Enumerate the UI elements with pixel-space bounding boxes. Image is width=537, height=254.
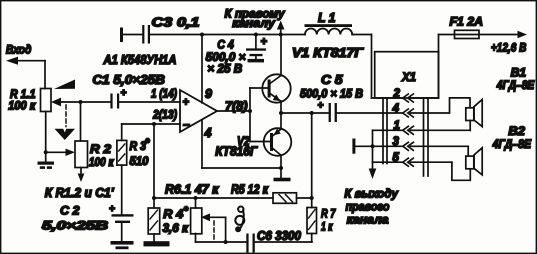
wire junction to R2 wiper arrow [46, 151, 67, 153]
svg-text:С1 5,0×25В: С1 5,0×25В [92, 73, 164, 87]
svg-text:каналу: каналу [232, 16, 276, 30]
svg-text:100 к: 100 к [8, 99, 36, 113]
op-amp output wire [217, 110, 250, 112]
inductor L1 [305, 11, 353, 35]
node R5/R7 [310, 196, 314, 200]
connector X1 row 1 [373, 120, 471, 134]
connector X1 row 2 [372, 88, 439, 102]
mechanical link dashed line [65, 105, 67, 127]
svg-text:+12,6 В: +12,6 В [491, 41, 527, 55]
node output [248, 109, 252, 113]
resistor R4* 3,6k [148, 205, 189, 235]
wire L1 to connector [352, 34, 371, 36]
svg-text:7(8): 7(8) [225, 99, 248, 113]
ground under R4 [153, 234, 155, 241]
R1.1 wiper arrow [51, 98, 61, 107]
wire V1 collector to rail [280, 35, 282, 76]
svg-text:5: 5 [393, 152, 400, 164]
inverting input wire [122, 123, 180, 125]
wire row2 to fuse [438, 52, 440, 98]
wire output to bases [250, 88, 271, 142]
capacitor C3 0,1 [123, 16, 200, 44]
svg-text:9: 9 [205, 87, 212, 101]
svg-text:R 4: R 4 [163, 207, 183, 221]
svg-text:–: – [183, 117, 190, 131]
svg-text:500,0 × 15 В: 500,0 × 15 В [300, 86, 363, 100]
wire junction vertical [372, 130, 374, 169]
svg-text:Вход: Вход [6, 42, 32, 56]
svg-text:V1 КТ817Г: V1 КТ817Г [292, 46, 364, 60]
svg-text:+: + [109, 204, 115, 215]
wire inv input down to R3 [121, 124, 123, 140]
svg-text:3,6 к: 3,6 к [163, 221, 189, 235]
svg-text:правого: правого [346, 199, 390, 213]
svg-text:× 25 В: × 25 В [207, 61, 242, 75]
svg-text:1: 1 [394, 120, 400, 132]
treble clef symbol [235, 207, 244, 233]
ground under C2 [111, 241, 134, 249]
wire R3 to C2 [121, 165, 123, 214]
node wiper/R2 junction [79, 100, 83, 104]
connector right bundle lines [424, 98, 429, 176]
wire V2 collector down [280, 155, 282, 168]
wire row3 to speaker B2 [467, 146, 469, 156]
svg-text:100 к: 100 к [89, 155, 114, 169]
node terminal junction [371, 144, 375, 148]
connector left bundle lines [383, 98, 387, 164]
op-amp A1 triangle [180, 90, 217, 132]
transistor V1 KT817G [262, 46, 364, 103]
wire emitters to C5 [281, 112, 329, 114]
ground terminal bar [352, 139, 355, 154]
svg-text:4: 4 [204, 126, 212, 140]
feedback vertical from emitters [311, 113, 313, 198]
resistor R3* 510 [117, 137, 150, 168]
ground under R1.1 [38, 162, 55, 169]
svg-text:В2: В2 [508, 124, 525, 138]
wire row5 to speaker B2 [452, 162, 470, 180]
svg-text:510: 510 [130, 154, 149, 168]
speaker B2 4GD-8E [466, 124, 532, 175]
wire row1 to speaker B1 [469, 121, 471, 131]
resistor R6.1 47k (variable) [191, 198, 202, 242]
svg-text:*: * [184, 205, 189, 217]
node V1 collector on rail [279, 33, 283, 37]
node inv input / R4 branch [152, 122, 156, 126]
wire V2 emitter up [280, 113, 282, 129]
wire row4 to speaker B1 [450, 98, 471, 113]
pin 9 line [201, 35, 203, 103]
svg-text:КТ816Г: КТ816Г [215, 145, 258, 159]
node R1.1 bottom junction [44, 150, 48, 154]
svg-text:R6.1 47 к: R6.1 47 к [165, 182, 219, 196]
wire R4 branch vertical [153, 124, 155, 208]
top supply rail wire [150, 34, 305, 36]
terminal bar (C3 left) [120, 28, 123, 43]
node emitters junction [279, 111, 283, 115]
capacitor C5 500,0x15V [300, 73, 363, 122]
svg-text:С 5: С 5 [321, 73, 344, 87]
wire V1 emitter down [280, 101, 282, 113]
wire terminal to row3 [354, 145, 403, 147]
wire wiper to C1 [58, 101, 111, 103]
input terminal "Вход" [6, 42, 45, 64]
resistor R1.1 100k (potentiometer section) [8, 87, 51, 113]
svg-text:4: 4 [392, 103, 400, 115]
wire input to R1.1 [44, 61, 46, 89]
svg-text:канала: канала [347, 213, 389, 227]
wire pin4 to V2 collector node [202, 167, 281, 169]
svg-text:+: + [261, 36, 268, 48]
svg-text:2(13): 2(13) [152, 108, 177, 122]
arrow to right channel [225, 6, 286, 34]
svg-text:С6 3300: С6 3300 [257, 229, 301, 243]
pin 4 line [201, 120, 203, 168]
capacitor C1 5,0x25V [92, 73, 164, 109]
fuse F1 2A [439, 15, 528, 52]
svg-text:R 2: R 2 [90, 142, 111, 156]
wire R1.1 bottom to ground [45, 112, 47, 162]
svg-text:4ГД–8Е: 4ГД–8Е [492, 137, 532, 151]
mechanical link arrow (dual pot) [54, 80, 75, 90]
wire R5 to feedback node [297, 197, 312, 199]
svg-text:R 7: R 7 [321, 207, 337, 221]
arrow R2 bottom to R1.2 [78, 168, 85, 183]
svg-text:+: + [318, 101, 324, 112]
svg-text:2: 2 [393, 88, 401, 100]
svg-text:F1 2А: F1 2А [450, 15, 484, 29]
feedback wire to R5/R6.1 [154, 197, 273, 199]
connector X1 row 3 [393, 136, 469, 150]
node C4 on rail [254, 33, 258, 37]
resistor R7 1k [307, 207, 337, 234]
node wiper to bottom wire [224, 240, 228, 244]
capacitor C2 5,0x25V [42, 204, 134, 241]
connector X1 row 4 [392, 103, 449, 117]
ground under V2 [280, 168, 282, 178]
node R6.1 top [194, 196, 198, 200]
svg-text:+: + [183, 97, 190, 109]
resistor R5 12k [273, 193, 297, 204]
svg-text:5,0×25В: 5,0×25В [42, 219, 108, 233]
speaker B1 4GD-8E [466, 65, 535, 126]
node feedback tee [152, 196, 156, 200]
svg-text:1 к: 1 к [321, 220, 333, 234]
wire junction to R2 top [80, 102, 82, 141]
ground under C4 [248, 59, 265, 63]
svg-text:К R1.2 и С1′: К R1.2 и С1′ [45, 186, 115, 200]
svg-text:1 (14): 1 (14) [151, 86, 177, 100]
svg-text:L 1: L 1 [318, 11, 336, 25]
capacitor C6 3300 [246, 229, 301, 253]
connector X1 row 5 [373, 152, 452, 166]
node V2 collector / pin4 [279, 166, 283, 170]
wire C5 to connector row4 [337, 112, 403, 114]
resistor R2 100k [75, 141, 114, 169]
node pin9 on rail [200, 33, 204, 37]
capacitor C4 500,0x25V [206, 35, 268, 76]
svg-text:R 3: R 3 [130, 139, 147, 153]
bottom feedback wire [196, 241, 247, 243]
R6.1 wiper [201, 213, 226, 242]
svg-text:А1 К548УН1А: А1 К548УН1А [103, 53, 177, 67]
transistor V2 KT816G [215, 128, 291, 158]
mechanical link arrow down [55, 129, 76, 140]
svg-text:Х1: Х1 [401, 70, 416, 84]
wire R7 top/bottom [311, 198, 313, 208]
svg-text:С 2: С 2 [60, 204, 80, 218]
wire C1 to op-amp +input [119, 101, 180, 103]
node feedback tap [310, 111, 314, 115]
svg-text:+: + [121, 88, 127, 99]
arrow to right channel output [369, 169, 377, 180]
svg-text:R5 12 к: R5 12 к [231, 182, 269, 196]
R6.1 mechanical dashed link [213, 221, 215, 240]
connector X1 housing box [375, 52, 439, 98]
svg-text:С3 0,1: С3 0,1 [152, 16, 200, 30]
svg-text:4ГД–8Е: 4ГД–8Е [496, 78, 535, 92]
svg-text:*: * [145, 137, 150, 149]
